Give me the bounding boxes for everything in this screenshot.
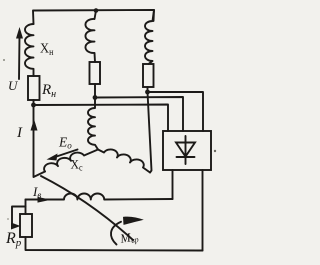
- wire top bus: [33, 10, 154, 24]
- rheostat Rр: [25, 200, 27, 215]
- node junction top of phase 2: [94, 8, 99, 13]
- wire phase 3 feed to rectifier: [148, 92, 204, 131]
- speck marks (scan noise): [3, 59, 5, 61]
- resistor phase 2: [90, 62, 101, 84]
- field winding (rotor) with wire: [26, 194, 173, 200]
- stator winding right branch: [98, 149, 150, 172]
- wiper of rheostat: [12, 207, 26, 227]
- node junction below Rн: [31, 103, 36, 108]
- stator winding left branch: [44, 150, 98, 172]
- wire phase 3 stem: [147, 87, 149, 92]
- rectifier U1 (box): [163, 131, 211, 170]
- arrow I (current arrowhead): [31, 119, 38, 131]
- wire phase 1 feed to rectifier: [34, 105, 169, 132]
- svg-text:I: I: [16, 125, 23, 141]
- svg-text:U: U: [8, 78, 19, 93]
- resistor phase 3: [143, 64, 154, 87]
- rotor shaft diagonal: [41, 176, 133, 240]
- inductor Xн (load reactance, phase 1): [25, 24, 34, 76]
- inductor coil phase 3: [145, 10, 154, 64]
- resistor Rн (load resistance, phase 1): [28, 76, 40, 100]
- wire phase 1 down to stator winding: [34, 105, 46, 177]
- inductor coil phase 2: [85, 11, 96, 63]
- arrow U (voltage arrow, far left): [18, 36, 21, 79]
- node junction phase 3: [145, 90, 150, 95]
- node junction phase 2: [93, 95, 98, 100]
- wire phase 3 down to stator winding: [148, 92, 152, 173]
- wire rectifier right output down: [202, 170, 204, 251]
- wire phase 1 stem below Rн: [33, 100, 35, 105]
- stator winding vertical branch (Xc): [88, 98, 98, 150]
- wire phase 2 stem: [94, 84, 96, 98]
- wire phase 2 feed to rectifier: [95, 97, 183, 131]
- arrow Mвр (torque curved arrow): [111, 222, 121, 245]
- diode inside rectifier: [185, 136, 187, 164]
- arrow E0: [55, 150, 78, 158]
- arrow Iв (field current arrowhead): [38, 197, 52, 203]
- wire bottom return bus: [26, 237, 203, 251]
- wire rectifier left output to field winding: [172, 170, 174, 199]
